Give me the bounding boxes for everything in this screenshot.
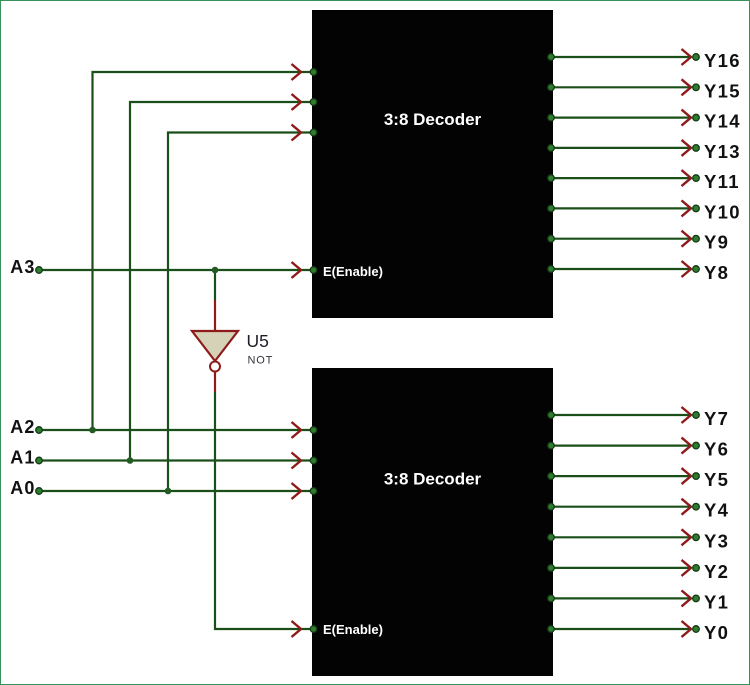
svg-text:Y16: Y16 xyxy=(704,50,741,71)
svg-text:Y6: Y6 xyxy=(704,439,729,460)
svg-text:Y10: Y10 xyxy=(704,201,741,222)
svg-text:3:8 Decoder: 3:8 Decoder xyxy=(384,110,482,129)
svg-text:A3: A3 xyxy=(10,257,35,277)
svg-text:A1: A1 xyxy=(10,448,35,468)
svg-text:3:8 Decoder: 3:8 Decoder xyxy=(384,470,482,489)
svg-text:NOT: NOT xyxy=(248,355,274,367)
svg-text:Y7: Y7 xyxy=(704,408,729,429)
svg-text:Y3: Y3 xyxy=(704,530,729,551)
svg-text:A0: A0 xyxy=(10,478,35,498)
svg-text:E(Enable): E(Enable) xyxy=(323,264,383,279)
svg-text:Y1: Y1 xyxy=(704,591,729,612)
svg-text:A2: A2 xyxy=(10,417,35,437)
svg-text:Y5: Y5 xyxy=(704,469,729,490)
svg-text:Y14: Y14 xyxy=(704,111,741,132)
svg-text:E(Enable): E(Enable) xyxy=(323,622,383,637)
svg-text:Y9: Y9 xyxy=(704,232,729,253)
svg-text:Y4: Y4 xyxy=(704,500,729,521)
svg-text:Y15: Y15 xyxy=(704,80,741,101)
svg-text:Y8: Y8 xyxy=(704,262,729,283)
svg-text:U5: U5 xyxy=(247,331,269,351)
svg-text:Y13: Y13 xyxy=(704,141,741,162)
svg-text:Y11: Y11 xyxy=(704,171,740,192)
svg-text:Y2: Y2 xyxy=(704,561,729,582)
svg-text:Y0: Y0 xyxy=(704,622,729,643)
